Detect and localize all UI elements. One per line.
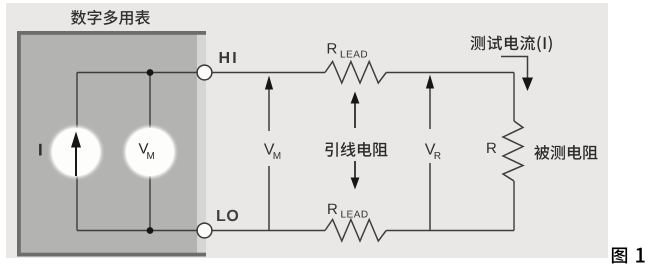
terminal HI [197,65,212,80]
caption 图 1 [612,248,645,264]
wire right branch down to R [513,73,515,122]
resistor R_LEAD top [325,62,386,84]
voltmeter VM [125,127,176,178]
resistor R_LEAD bottom [325,220,386,242]
wire top (HI rail) [77,72,325,74]
label 引线电阻 [325,142,387,157]
arrow down to R_LEAD bottom [351,161,360,190]
wire bottom right [386,230,514,232]
arrow up to R_LEAD top [351,92,360,129]
label R_LEAD bottom [328,204,367,218]
test current arrowhead [522,78,533,92]
resistor R (被测电阻) [503,121,523,181]
label I [39,144,42,156]
junction node top [147,69,154,76]
wire below R [513,181,515,231]
label LO [217,210,238,221]
junction node bottom [147,227,154,234]
label R [487,143,496,153]
wire bottom (LO rail) [77,230,325,232]
test current pointer line [501,57,528,79]
VM measure arrow [264,76,280,231]
title 数字多用表 [71,10,150,25]
terminal LO [197,223,212,238]
wire top right [386,72,514,74]
label 被测电阻 [534,145,597,160]
wire left vertical [76,73,78,231]
multimeter box U1 (数字多用表) [17,31,206,257]
VR measure arrow [425,75,441,231]
label 测试电流(I) [471,36,552,53]
label R_LEAD top [328,43,367,57]
current source I [51,127,102,178]
label HI [220,52,236,63]
wire mid vertical [149,73,151,231]
